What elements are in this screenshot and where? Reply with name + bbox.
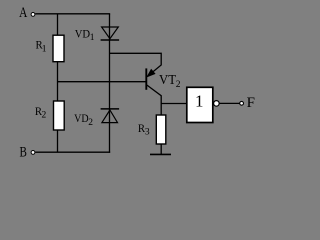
svg-text:VT: VT — [159, 73, 176, 88]
diode VD1 — [101, 27, 120, 40]
terminal A — [31, 13, 35, 17]
wire: R3 bottom lead — [160, 144, 162, 154]
terminal B — [31, 151, 35, 155]
svg-text:1: 1 — [90, 33, 95, 43]
gate U1 inversion bubble — [214, 101, 220, 107]
transistor VT2 collector path — [147, 85, 161, 115]
resistor R3 — [156, 115, 166, 144]
wire: base (R1R2 junction to transistor base) — [58, 81, 147, 83]
wire: emitter path (diode junction to emitter) — [110, 53, 162, 74]
svg-text:F: F — [247, 95, 255, 111]
svg-text:A: A — [19, 5, 27, 21]
diode VD1 label — [75, 26, 95, 43]
resistor R1 — [53, 35, 64, 62]
resistor R2 label — [35, 104, 47, 121]
svg-text:VD: VD — [75, 26, 91, 40]
svg-text:1: 1 — [42, 44, 47, 54]
wire: diode column vertical — [109, 14, 111, 153]
transistor VT2 base bar — [145, 68, 147, 89]
wire bottom: B to diode column corner — [35, 151, 110, 153]
transistor VT2 emitter arrow — [147, 69, 155, 77]
wire: bubble to terminal F — [219, 102, 239, 104]
wire: collector to gate input — [161, 103, 186, 105]
gate U1 box — [187, 87, 213, 122]
svg-text:2: 2 — [88, 118, 93, 128]
svg-text:B: B — [20, 144, 27, 160]
wire: R1 bottom to R2 top — [57, 62, 59, 101]
wire: R2 bottom lead — [57, 130, 59, 152]
diode VD2 — [101, 109, 120, 123]
resistor R2 — [54, 101, 65, 130]
svg-text:2: 2 — [176, 80, 181, 90]
resistor R3 label — [138, 121, 150, 138]
resistor R1 label — [36, 38, 47, 55]
wire: R1 top lead — [57, 14, 59, 36]
diode VD2 label — [74, 111, 93, 128]
svg-text:1: 1 — [195, 91, 204, 110]
svg-text:3: 3 — [145, 128, 150, 138]
svg-text:VD: VD — [74, 111, 89, 125]
terminal F — [240, 101, 244, 105]
wire top: A to diode column corner — [35, 13, 110, 15]
transistor VT2 label — [159, 73, 181, 90]
ground — [150, 153, 171, 155]
svg-text:2: 2 — [42, 111, 47, 121]
